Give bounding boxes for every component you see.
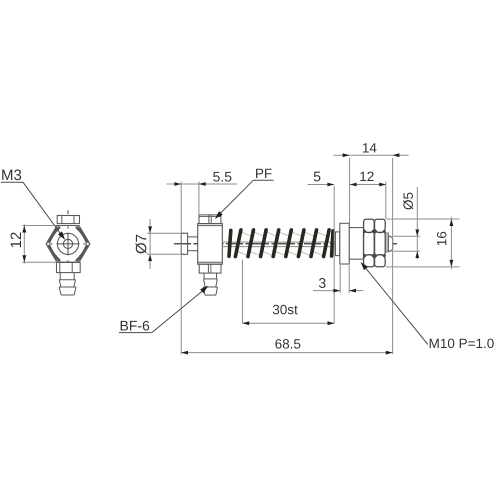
PF tab top inner line bbox=[199, 216, 221, 218]
dim 12 dimension line bbox=[350, 184, 386, 186]
dim 14 arrows bbox=[343, 153, 350, 157]
dim 5.5 extension line left (shared with 68.5) bbox=[180, 182, 182, 355]
phi7 arrows bbox=[148, 226, 152, 233]
dim 3 text bbox=[319, 278, 326, 288]
PF tab inner verticals bbox=[208, 215, 210, 224]
bottom barb neck (side view) bbox=[203, 273, 205, 279]
phi5 dimension line bbox=[416, 187, 418, 260]
main body block bbox=[198, 224, 223, 265]
dim 30st extension left bbox=[241, 260, 243, 324]
PF underline bbox=[253, 179, 273, 181]
hex chamfer corner bottom-right bbox=[76, 245, 87, 261]
dim 5.5 dimension line bbox=[167, 183, 237, 185]
dim 3 arrows bbox=[333, 289, 340, 293]
top tab inner lines bbox=[61, 216, 63, 224]
barb neck (end view) bbox=[59, 273, 61, 280]
dim 68.5 arrows bbox=[181, 351, 188, 355]
hex nut 1 bbox=[364, 219, 375, 267]
dim 16 extension lines bbox=[386, 218, 459, 220]
phi5 extension lines bbox=[393, 235, 420, 237]
dim 5 arrow bbox=[327, 183, 334, 187]
dim 30st text bbox=[273, 305, 298, 315]
spring back coil thin lines bbox=[237, 232, 328, 255]
label PF bbox=[256, 169, 272, 178]
dim 5.5 arrows bbox=[174, 182, 181, 186]
barb ridge 2 (end view) bbox=[59, 286, 76, 288]
bottom tab inner lines bbox=[59, 262, 61, 272]
thread relief section bbox=[386, 233, 389, 252]
M3 leader line bbox=[23, 182, 64, 238]
dim 16 dimension line bbox=[450, 217, 452, 270]
dim 68.5 dimension line bbox=[181, 352, 392, 354]
dim 5 extension line (spring end) bbox=[333, 186, 335, 323]
dim 12 text bbox=[360, 172, 373, 181]
main horizontal centerline bbox=[174, 243, 397, 245]
hex chamfer corner bottom-left bbox=[49, 245, 60, 261]
BF-6 leader line bbox=[152, 287, 207, 332]
dim 16 arrows bbox=[450, 219, 454, 226]
barb segment 1 sides (end view) bbox=[59, 280, 61, 287]
dimension 12 arrows bbox=[22, 226, 26, 233]
dimension 12 (end view) extension lines bbox=[22, 225, 56, 227]
horizontal centerline of end view bbox=[49, 243, 87, 245]
BF-6 leader arrowhead bbox=[200, 286, 208, 293]
phi5 arrows bbox=[415, 230, 419, 237]
dim 14 extension left (washer right face) bbox=[349, 158, 351, 223]
phi5 text (rotated) bbox=[403, 193, 413, 210]
spring coil front strokes bbox=[229, 230, 333, 257]
neck between flange and body bbox=[188, 236, 198, 238]
M3 hole circle bbox=[63, 239, 72, 248]
dim 5.5 text bbox=[213, 172, 231, 182]
barb segment 2 sides (end view) bbox=[59, 287, 61, 295]
body top inner line bbox=[198, 225, 223, 227]
dim 30st dimension line bbox=[242, 322, 334, 324]
PF leader line bbox=[217, 180, 253, 216]
M10 threaded cylinder bbox=[349, 228, 363, 260]
M3 leader arrowhead bbox=[58, 231, 65, 239]
label M10 P=1.0 bbox=[430, 339, 494, 349]
left flange bbox=[181, 233, 187, 254]
dim 5 dimension line bbox=[308, 184, 335, 186]
barb segment 1 sides (side view) bbox=[204, 279, 206, 287]
barb bottom edge (side view) bbox=[205, 294, 216, 296]
dim 68.5 text bbox=[275, 339, 300, 349]
phi7 text (rotated) bbox=[135, 235, 146, 254]
washer bbox=[340, 223, 350, 264]
end tip phi5 bbox=[388, 236, 392, 251]
M10 leader line bbox=[362, 264, 428, 345]
M3 leader underline bbox=[1, 181, 23, 183]
dim 16 text (rotated) bbox=[437, 232, 447, 245]
spring seat collar bbox=[335, 232, 339, 256]
PF tab (side view) bbox=[199, 215, 221, 224]
dim 14 dimension line bbox=[334, 154, 409, 156]
hex chamfer corner top-left bbox=[49, 227, 60, 243]
bottom tab (side view) bbox=[199, 264, 221, 273]
dim 5.5 extension line right bbox=[198, 182, 200, 215]
top tab (end view) bbox=[57, 216, 79, 224]
dim 30st arrows bbox=[242, 321, 249, 325]
label M3 bbox=[2, 170, 21, 181]
flange circle phi7 (end view) bbox=[57, 233, 78, 254]
barb bottom edge (end view) bbox=[61, 294, 74, 296]
body bottom inner line bbox=[198, 261, 223, 263]
dim 3 dimension line bbox=[313, 290, 340, 292]
hexagon outline re-stroke (crisp edges over chamfer) bbox=[46, 226, 90, 263]
PF leader arrowhead bbox=[215, 211, 223, 219]
dimension 12 (end view) dimension line bbox=[23, 224, 25, 263]
label BF-6 bbox=[121, 321, 150, 331]
dim 5 text bbox=[314, 172, 321, 182]
dim 14 extension right (tip end, shared with 68.5) bbox=[392, 158, 394, 354]
bottom tab inner verticals bbox=[207, 264, 209, 273]
BF-6 underline bbox=[119, 332, 152, 334]
barb ridge 1 (end view) bbox=[59, 279, 75, 281]
bottom tab (end view) bbox=[57, 262, 81, 272]
hex chamfer corner top-right bbox=[76, 227, 87, 243]
vertical centerline of end view bbox=[67, 210, 69, 262]
hex nut 2 bbox=[375, 219, 386, 267]
dim 14 text bbox=[363, 143, 377, 152]
dim 3 extension lines bbox=[339, 265, 341, 293]
barb ridge 1 (side view) bbox=[204, 278, 218, 280]
M10 leader arrowhead bbox=[361, 262, 368, 270]
dimension 12 text (rotated) bbox=[11, 232, 21, 247]
phi7 extension lines bbox=[147, 232, 185, 234]
hexagon body (end view) bbox=[46, 226, 90, 263]
dim 12 extension right bbox=[385, 182, 387, 219]
dim 12 arrows bbox=[350, 183, 357, 187]
barb ridge 2 (side view) bbox=[203, 286, 217, 288]
phi7 dimension line bbox=[149, 219, 151, 269]
piston rod behind spring bbox=[222, 241, 335, 243]
barb segment 2 sides (side view) bbox=[203, 287, 205, 295]
